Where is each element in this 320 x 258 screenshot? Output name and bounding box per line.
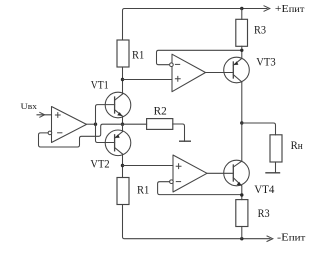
wire U3 output to VT4 base: [207, 172, 233, 174]
node top rail junction: [240, 7, 243, 10]
wire VT2 emitter up to node: [122, 124, 124, 131]
wire U2 output to VT3 base: [206, 72, 234, 74]
op-amp U1 (input): [48, 107, 86, 143]
wire bottom rail arrowhead: [267, 236, 273, 241]
resistor R2: [147, 119, 173, 130]
wire VT3 collector to output node: [241, 82, 243, 123]
node output: [240, 121, 243, 124]
node emitters junction: [121, 123, 124, 126]
wire VT1 emitter to node: [122, 116, 124, 124]
wire R2 right lead: [173, 124, 185, 141]
node below R1: [121, 78, 124, 81]
node VT2 collector: [121, 164, 124, 167]
wire bottom rail -E: [123, 205, 271, 239]
resistor R3 (top): [236, 19, 248, 46]
resistor R1 (bottom): [117, 178, 129, 205]
resistor R1 (top): [117, 40, 129, 67]
svg-text:R1: R1: [137, 185, 150, 197]
svg-text:VT4: VT4: [254, 184, 274, 196]
op-amp U3 (bottom): [170, 155, 207, 192]
svg-text:VT2: VT2: [90, 158, 109, 170]
ground for R2: [180, 140, 191, 142]
wire output node to Rn: [242, 123, 276, 135]
svg-text:VT1: VT1: [91, 80, 109, 92]
svg-text:R3: R3: [258, 208, 270, 220]
wire top rail arrowhead: [264, 6, 270, 11]
svg-text:+Епит: +Епит: [275, 4, 305, 15]
wire bases vertical with VT1/VT2 base leads: [96, 105, 115, 143]
svg-text:Rн: Rн: [291, 140, 304, 152]
transistor VT3: [224, 57, 250, 83]
ground for Rн: [266, 172, 280, 174]
transistor VT4: [224, 160, 250, 186]
wire U3 feedback: [158, 182, 242, 195]
wire U2 feedback: [157, 50, 242, 64]
wire rail to R3 top: [241, 9, 243, 20]
wire to top op-amp plus input: [123, 79, 173, 81]
transistor VT2: [105, 130, 131, 156]
node U1 output: [94, 123, 97, 126]
resistor R3 (bottom): [236, 200, 248, 227]
svg-text:R2: R2: [154, 105, 167, 117]
wire VT4 emitter to R3 bottom: [241, 186, 243, 200]
svg-text:R1: R1: [132, 49, 145, 61]
wire R3 to VT3 emitter: [241, 46, 243, 58]
svg-text:-Епит: -Епит: [277, 233, 305, 244]
transistor VT1: [105, 92, 131, 118]
wire Rn to ground: [275, 162, 277, 173]
wire top rail +E: [123, 9, 268, 41]
wire VT2 collector down to R1 bottom: [122, 154, 124, 178]
svg-text:Uвх: Uвх: [21, 101, 38, 111]
wire op-amp U1 output: [87, 123, 96, 125]
wire input with arrow: [37, 114, 52, 116]
node VT4 emitter/feedback: [240, 193, 243, 196]
node bottom rail junction: [240, 237, 243, 240]
wire VT4 collector to output node: [241, 123, 243, 161]
wire U1 feedback from minus input: [39, 124, 147, 147]
wire R3 bottom to rail: [241, 227, 243, 239]
wire to bottom op-amp plus input: [123, 165, 174, 167]
resistor Rн: [270, 135, 282, 162]
node R3/VT3/feedback: [240, 49, 243, 52]
op-amp U2 (top): [170, 54, 206, 91]
svg-text:VT3: VT3: [256, 57, 276, 69]
wire R1 to VT1 collector: [122, 67, 124, 94]
svg-text:R3: R3: [254, 24, 266, 36]
